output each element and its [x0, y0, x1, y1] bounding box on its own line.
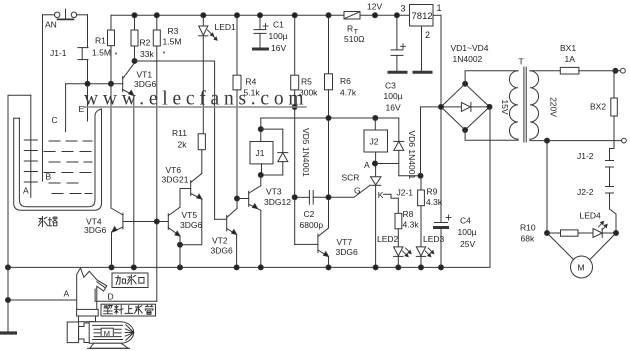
svg-text:T: T	[519, 57, 524, 67]
svg-text:16V: 16V	[386, 103, 401, 113]
node E-junction	[85, 81, 90, 86]
capacitor C2	[295, 191, 329, 205]
svg-text:C2: C2	[304, 209, 315, 219]
svg-text:LED2: LED2	[377, 234, 399, 244]
node J2 top	[373, 116, 378, 121]
svg-text:VT6: VT6	[166, 165, 182, 175]
terminal top	[615, 68, 625, 73]
node 12V tap	[373, 13, 378, 18]
svg-text:*: *	[115, 50, 118, 59]
svg-text:220V: 220V	[549, 97, 559, 117]
svg-text:K: K	[378, 190, 384, 200]
svg-text:4.3k: 4.3k	[403, 220, 420, 230]
resistor R5	[291, 15, 299, 244]
fuse BX2	[611, 71, 618, 149]
svg-text:B: B	[46, 172, 52, 182]
electrode C	[65, 84, 67, 132]
electrode E	[87, 84, 89, 121]
terminal bottom	[622, 138, 627, 143]
resistor R1	[108, 15, 115, 84]
svg-text:12V: 12V	[367, 2, 382, 12]
node J1 top-VD5	[258, 127, 263, 132]
svg-text:3: 3	[401, 4, 406, 14]
resistor R6	[325, 15, 333, 228]
svg-text:VD5 1N4001: VD5 1N4001	[301, 128, 311, 177]
svg-text:1: 1	[437, 3, 442, 13]
rail dots top	[132, 13, 137, 18]
svg-text:VD6 1N4001: VD6 1N4001	[407, 131, 417, 180]
svg-text:4.3k: 4.3k	[426, 197, 443, 207]
svg-text:R9: R9	[427, 187, 438, 197]
transistor VT2	[215, 208, 237, 267]
node primary bottom	[545, 138, 550, 143]
svg-text:LED1: LED1	[215, 22, 237, 32]
label shuita (water tower)	[39, 217, 58, 227]
svg-text:7812: 7812	[412, 11, 433, 22]
svg-text:*: *	[163, 49, 166, 58]
svg-text:VT3: VT3	[266, 187, 282, 197]
wire VD6 to raw DC node	[399, 175, 421, 177]
svg-text:M: M	[578, 263, 585, 273]
svg-text:1N4002: 1N4002	[453, 54, 483, 64]
svg-text:VT5: VT5	[182, 210, 198, 220]
node R1-base	[109, 81, 114, 86]
svg-text:VT2: VT2	[212, 236, 228, 246]
motor M	[547, 233, 616, 278]
svg-text:1.5M: 1.5M	[92, 48, 111, 58]
svg-text:3DG6: 3DG6	[180, 220, 202, 230]
svg-text:A: A	[364, 160, 370, 170]
diode VD5	[261, 129, 288, 175]
node bridge left	[439, 104, 444, 109]
transistor VT5	[168, 189, 180, 268]
LED LED3	[416, 247, 434, 268]
svg-text:J2: J2	[370, 137, 379, 147]
wire VT1 emitter to ground bus	[133, 96, 135, 268]
wire VT1 collector to VT2 base	[135, 60, 215, 62]
relay contact J1-1	[78, 15, 88, 84]
svg-text:R5: R5	[301, 77, 312, 87]
svg-text:1A: 1A	[565, 54, 576, 64]
resistor R9	[418, 176, 425, 247]
wire top 12V rail	[111, 14, 344, 16]
svg-text:16V: 16V	[271, 43, 286, 53]
transistor VT7	[295, 228, 329, 267]
svg-text:J1: J1	[256, 148, 265, 158]
svg-text:R3: R3	[168, 26, 179, 36]
svg-text:100µ: 100µ	[269, 31, 288, 41]
pushbutton AN	[43, 9, 88, 19]
tank rim lips	[14, 109, 102, 118]
svg-text:R: R	[347, 24, 353, 34]
ground bus	[8, 107, 490, 268]
node bridge right	[487, 104, 492, 109]
svg-text:J1-2: J1-2	[577, 151, 594, 161]
node A SCR anode	[373, 161, 378, 166]
resistor R11	[198, 134, 205, 174]
svg-text:3DG6: 3DG6	[336, 247, 358, 257]
transformer core	[523, 67, 525, 142]
svg-text:AN: AN	[45, 20, 57, 30]
svg-text:33k: 33k	[140, 49, 154, 59]
svg-text:3DG6: 3DG6	[84, 225, 106, 235]
capacitor C3	[389, 15, 406, 72]
transformer T primary	[530, 71, 622, 141]
svg-text:BX2: BX2	[590, 102, 606, 112]
node bridge bottom	[463, 128, 468, 133]
transistor VT1	[123, 61, 135, 96]
svg-text:100µ: 100µ	[384, 91, 403, 101]
svg-text:M: M	[104, 329, 110, 338]
svg-text:R2: R2	[140, 38, 151, 48]
svg-text:R8: R8	[403, 209, 414, 219]
wire D sensor	[95, 289, 157, 301]
transistor VT6	[180, 174, 202, 245]
svg-text:SCR: SCR	[342, 173, 360, 183]
label box 加水口	[112, 273, 148, 288]
svg-text:3DG21: 3DG21	[162, 175, 189, 185]
regulator U 7812	[410, 5, 442, 73]
svg-text:E: E	[79, 104, 85, 114]
svg-text:300k: 300k	[299, 88, 318, 98]
svg-text:4.7k: 4.7k	[340, 88, 357, 98]
node C2 right gate	[326, 195, 331, 200]
LED LED2	[394, 247, 412, 268]
resistor R8	[395, 198, 402, 247]
resistor R2	[131, 15, 138, 61]
svg-text:1.5M: 1.5M	[163, 37, 182, 47]
svg-text:R1: R1	[95, 36, 106, 46]
node bridge top	[463, 81, 468, 86]
relay coil J1	[250, 118, 273, 175]
svg-text:6800p: 6800p	[300, 220, 324, 230]
svg-text:R10: R10	[520, 223, 536, 233]
svg-text:2: 2	[425, 30, 430, 40]
fuse BX1	[560, 67, 615, 74]
svg-text:C1: C1	[273, 20, 284, 30]
node bus-left	[6, 298, 11, 303]
svg-text:3DG6: 3DG6	[211, 246, 233, 256]
svg-text:C: C	[52, 115, 58, 125]
svg-text:3DG12: 3DG12	[264, 197, 291, 207]
ground symbol	[1, 331, 15, 334]
electrode A	[24, 95, 37, 197]
funnel inlet	[77, 268, 107, 309]
node R2-VT1 collector	[132, 59, 137, 64]
svg-text:A: A	[64, 289, 70, 299]
node BX2 top	[613, 68, 618, 73]
capacitor C1	[254, 15, 269, 49]
wire J-coil supply line	[261, 117, 399, 119]
resistor R4	[233, 15, 241, 208]
svg-text:100µ: 100µ	[458, 227, 477, 237]
svg-text:3DG6: 3DG6	[134, 79, 156, 89]
resistor R3	[153, 15, 160, 301]
transistor VT4	[111, 84, 168, 268]
node bus dots	[6, 265, 11, 270]
svg-text:VD1~VD4: VD1~VD4	[451, 43, 489, 53]
LED LED4	[593, 221, 616, 237]
svg-text:C3: C3	[385, 81, 396, 91]
relay coil J2	[364, 118, 388, 176]
wire A to funnel	[8, 299, 77, 301]
svg-text:D: D	[108, 292, 114, 302]
node base D-line	[154, 219, 159, 224]
wire electrode A to rail	[8, 95, 31, 331]
SCR V	[329, 177, 382, 268]
wire motor loop left	[546, 141, 548, 234]
label jiashuikou (water inlet)	[116, 275, 144, 285]
svg-text:VT7: VT7	[337, 237, 353, 247]
node R6-Jline	[326, 116, 331, 121]
svg-text:LED3: LED3	[423, 234, 445, 244]
label box 塑料上水管	[101, 304, 156, 316]
svg-text:BX1: BX1	[560, 43, 576, 53]
thermistor RT	[344, 12, 360, 20]
wire to electrode B	[42, 15, 44, 181]
svg-text:R6: R6	[340, 76, 351, 86]
label suliao shangshuiguan (plastic water pipe)	[104, 305, 154, 314]
contact J2-1	[384, 194, 399, 198]
pipe collar	[77, 309, 99, 316]
svg-text:68k: 68k	[521, 234, 535, 244]
node C2 left	[292, 195, 297, 200]
svg-text:25V: 25V	[460, 239, 475, 249]
svg-text:R4: R4	[246, 77, 257, 87]
wire VT1 base	[66, 83, 123, 85]
node R5 watermark junction	[292, 105, 297, 110]
resistor R10	[547, 230, 593, 236]
diode VD6	[394, 118, 404, 176]
node VT5 emitter R11	[178, 242, 183, 247]
pump motor body	[67, 322, 134, 349]
water level dashes	[44, 141, 92, 194]
wire raw DC from bridge	[421, 107, 442, 176]
svg-text:J2-2: J2-2	[577, 187, 594, 197]
contact J2-2	[606, 187, 617, 234]
svg-text:LED4: LED4	[580, 211, 602, 221]
wire 7812 input from bridge	[440, 15, 442, 107]
contact J1-2	[606, 149, 615, 187]
node J1 bottom	[258, 173, 263, 178]
svg-text:2k: 2k	[178, 140, 188, 150]
svg-text:G: G	[354, 186, 361, 196]
node VT3 base tap	[235, 196, 240, 201]
water tower tank outer wall	[14, 109, 102, 210]
svg-text:J1-1: J1-1	[50, 48, 67, 58]
svg-text:R11: R11	[172, 128, 187, 138]
svg-text:5.1k: 5.1k	[244, 88, 261, 98]
LED LED1	[199, 15, 217, 134]
node motor right	[614, 231, 619, 236]
transistor VT3	[237, 175, 261, 267]
svg-text:510Ω: 510Ω	[344, 34, 365, 44]
svg-text:A: A	[23, 186, 29, 196]
svg-text:15V: 15V	[500, 99, 510, 114]
transformer T secondary	[465, 71, 518, 141]
bridge rectifier VD1-VD4	[441, 84, 490, 130]
wire A node to VD6	[375, 163, 399, 165]
node raw DC feed	[418, 173, 423, 178]
svg-text:C4: C4	[460, 216, 471, 226]
svg-text:VT1: VT1	[137, 70, 153, 80]
capacitor C4	[435, 107, 452, 268]
water tower tank inner wall	[19, 115, 95, 207]
svg-text:J2-1: J2-1	[397, 188, 414, 198]
node motor left	[545, 231, 550, 236]
